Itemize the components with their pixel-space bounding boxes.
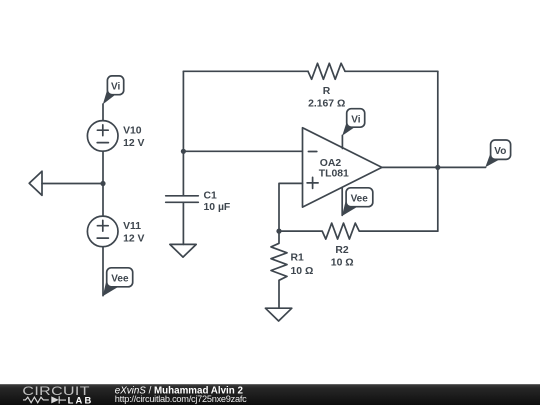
- wire feedback right vertical: [437, 71, 439, 231]
- svg-text:Vi: Vi: [351, 115, 360, 126]
- wire output: [382, 166, 486, 168]
- svg-text:http://circuitlab.com/cj725nxe: http://circuitlab.com/cj725nxe9zafc: [115, 394, 247, 404]
- svg-text:Vi: Vi: [111, 82, 120, 93]
- svg-text:10 µF: 10 µF: [204, 202, 231, 213]
- op-amp top power pin: [341, 135, 343, 148]
- wire ground to node between sources: [42, 183, 103, 185]
- svg-text:C1: C1: [204, 191, 218, 202]
- svg-text:R2: R2: [335, 245, 349, 256]
- svg-text:12 V: 12 V: [123, 138, 144, 149]
- ground (left arrow): [29, 171, 42, 195]
- flag Vo (output): [485, 140, 510, 167]
- wire feedback top right: [345, 70, 438, 72]
- svg-text:Vo: Vo: [494, 146, 506, 157]
- wire Vi flag to V10 top: [102, 104, 104, 121]
- svg-text:V10: V10: [123, 126, 142, 137]
- node junction at sources midpoint: [100, 181, 105, 186]
- resistor R1 vertical: [271, 231, 287, 308]
- svg-text:Vee: Vee: [351, 193, 369, 204]
- junction dot output node: [435, 165, 440, 170]
- op-amp minus symbol: [308, 151, 316, 153]
- svg-text:10 Ω: 10 Ω: [291, 266, 314, 277]
- flag Vee (left source bottom): [103, 268, 133, 296]
- svg-text:2.167 Ω: 2.167 Ω: [308, 98, 345, 109]
- bar credit text: [115, 385, 247, 404]
- op-amp bottom power pin: [341, 188, 343, 216]
- svg-text:OA2: OA2: [320, 158, 342, 169]
- svg-text:Vee: Vee: [111, 274, 129, 285]
- voltage source V11: [87, 216, 118, 247]
- ground below R1: [265, 308, 291, 321]
- ground below C1: [170, 244, 196, 257]
- wire plus input: [279, 183, 303, 231]
- junction dot R1/R2 node: [276, 229, 281, 234]
- op-amp plus symbol: [307, 177, 318, 188]
- resistor R2 horizontal: [279, 223, 438, 239]
- capacitor C1: [166, 151, 199, 244]
- resistor R: [308, 63, 345, 79]
- svg-text:R: R: [323, 86, 331, 97]
- voltage source V10: [87, 121, 118, 152]
- CircuitLab logo: [22, 384, 93, 405]
- junction dot C1 node: [181, 149, 186, 154]
- wire V11 bottom to Vee flag: [102, 247, 104, 296]
- svg-text:TL081: TL081: [319, 169, 349, 180]
- wire minus input: [183, 150, 302, 152]
- flag Vee (op-amp V-): [342, 188, 373, 216]
- svg-text:10 Ω: 10 Ω: [331, 258, 354, 269]
- svg-text:R1: R1: [291, 252, 305, 263]
- svg-text:12 V: 12 V: [123, 234, 144, 245]
- svg-text:LAB: LAB: [68, 394, 94, 405]
- component labels: [123, 86, 353, 277]
- op-amp OA2 triangle: [303, 128, 382, 207]
- wire feedback left vertical: [182, 71, 184, 151]
- flag Vi (left source): [103, 76, 124, 105]
- wire V10 bottom to V11 top: [102, 151, 104, 216]
- svg-text:V11: V11: [123, 221, 141, 232]
- flag Vi (op-amp V+): [342, 109, 365, 136]
- wire feedback top left: [183, 70, 308, 72]
